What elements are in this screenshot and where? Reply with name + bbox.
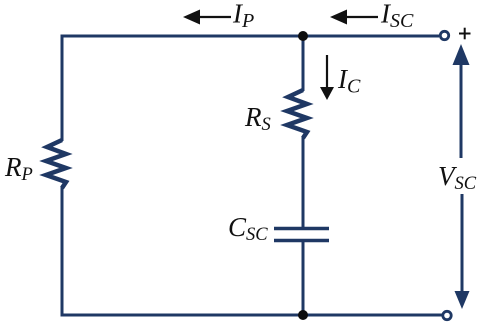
wire top-right segment <box>303 35 439 38</box>
svg-text:ISC: ISC <box>380 0 414 32</box>
node top junction <box>298 31 308 41</box>
svg-text:IP: IP <box>232 0 254 32</box>
svg-text:RP: RP <box>4 152 33 185</box>
wire middle upper segment <box>302 36 305 91</box>
arrow IP <box>183 10 231 25</box>
svg-text:CSC: CSC <box>228 212 268 245</box>
terminal bottom-right <box>443 311 451 319</box>
wire middle lower segment <box>302 241 305 315</box>
svg-text:IC: IC <box>337 64 361 98</box>
svg-text:RS: RS <box>244 102 271 135</box>
node bottom junction <box>298 310 308 320</box>
svg-text:VSC: VSC <box>438 161 477 194</box>
wire top-left segment <box>62 36 303 141</box>
wire middle between Rs and Csc <box>302 137 305 228</box>
arrow ISC <box>330 10 378 25</box>
resistor RS <box>287 90 307 138</box>
arrow VSC lower (points down) <box>455 194 470 309</box>
capacitor CSC top plate <box>274 227 329 231</box>
resistor RP <box>46 140 66 188</box>
wire bottom-right segment <box>303 314 442 317</box>
arrow IC <box>320 55 334 100</box>
arrow VSC upper (points up to +) <box>453 44 470 158</box>
terminal top-right <box>440 31 448 39</box>
wire left lower segment <box>62 187 303 315</box>
capacitor CSC bottom plate <box>274 239 329 243</box>
plus sign <box>459 28 471 40</box>
